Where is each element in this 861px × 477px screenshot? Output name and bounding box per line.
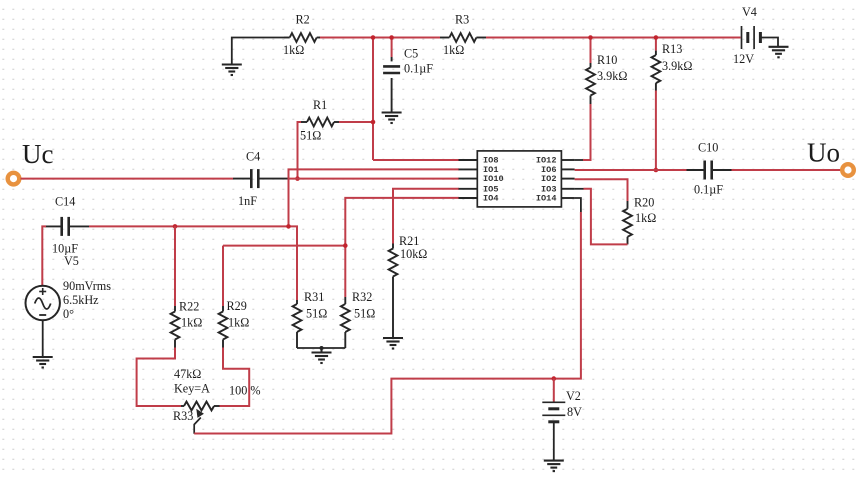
svg-text:0.1µF: 0.1µF bbox=[404, 62, 433, 76]
svg-text:R13: R13 bbox=[662, 42, 682, 56]
ground (V4) bbox=[769, 47, 789, 58]
svg-text:1kΩ: 1kΩ bbox=[228, 316, 249, 330]
battery V2 bbox=[542, 402, 565, 422]
svg-text:R1: R1 bbox=[313, 98, 327, 112]
svg-text:R29: R29 bbox=[227, 299, 247, 313]
junction IO4 drop / R29 branch bbox=[343, 243, 348, 248]
node Uo terminal bbox=[842, 164, 854, 176]
svg-text:1kΩ: 1kΩ bbox=[181, 316, 202, 330]
svg-text:47kΩ: 47kΩ bbox=[174, 367, 201, 381]
ground (V2) bbox=[544, 461, 564, 472]
resistor R2 bbox=[284, 33, 320, 42]
svg-text:R32: R32 bbox=[352, 290, 372, 304]
svg-text:R22: R22 bbox=[179, 300, 199, 314]
wire pin IO4 branch to R29 top bbox=[222, 246, 224, 306]
svg-text:51Ω: 51Ω bbox=[354, 307, 375, 321]
resistor R20 bbox=[623, 201, 632, 244]
wire pin IO14 corner bbox=[575, 198, 581, 212]
wire R2 ground lead bbox=[232, 38, 284, 65]
svg-text:C10: C10 bbox=[698, 141, 718, 155]
wire C14 left to V5 bbox=[42, 226, 46, 286]
svg-text:IO4: IO4 bbox=[483, 194, 498, 204]
resistor R3 bbox=[440, 33, 486, 42]
resistor R13 bbox=[652, 51, 661, 91]
junction top rail / x373 bbox=[371, 35, 376, 40]
svg-text:R21: R21 bbox=[399, 234, 419, 248]
wire R10 top bbox=[590, 38, 592, 64]
capacitor C4 bbox=[233, 169, 289, 188]
svg-text:51Ω: 51Ω bbox=[306, 307, 327, 321]
svg-text:100 %: 100 % bbox=[229, 384, 260, 398]
wire V2 negative to ground bbox=[553, 422, 555, 461]
junction C14 line / R22 bbox=[173, 224, 178, 229]
wire pin IO1 line and drop to C14 line bbox=[289, 169, 460, 226]
pin labels right column bbox=[536, 156, 557, 204]
resistor R21 bbox=[389, 244, 398, 339]
wire R10 bottom to pin IO12 bbox=[583, 104, 591, 160]
pin stubs right (IO12 IO6 IO2 IO3 IO14) bbox=[561, 160, 574, 198]
svg-text:R20: R20 bbox=[634, 196, 654, 210]
svg-text:51Ω: 51Ω bbox=[300, 129, 321, 143]
wire R33 wiper to V2 and pin IO14 bbox=[194, 212, 581, 434]
node Uc terminal bbox=[8, 173, 20, 185]
wire V2 positive lead bbox=[553, 379, 555, 403]
wire pin IO4 line and drop to R32 bbox=[345, 198, 459, 297]
svg-text:V5: V5 bbox=[64, 254, 79, 268]
ground (R2 left) bbox=[222, 65, 242, 76]
svg-text:R3: R3 bbox=[455, 13, 469, 27]
wire top rail left segment (R2 to R3) bbox=[319, 37, 440, 39]
wire pin IO3 to R20 bottom bbox=[575, 188, 584, 190]
wire Uc to C4 bbox=[21, 178, 234, 180]
wire R22 top bbox=[174, 226, 176, 306]
svg-text:C5: C5 bbox=[404, 47, 418, 61]
capacitor C10 bbox=[687, 161, 732, 180]
capacitor C14 bbox=[45, 217, 90, 236]
svg-text:R10: R10 bbox=[597, 53, 617, 67]
junction V2 positive bbox=[552, 376, 557, 381]
wire V4 negative to ground bbox=[760, 38, 778, 47]
potentiometer R33 bbox=[181, 402, 220, 434]
svg-text:V4: V4 bbox=[742, 5, 757, 19]
resistor R1 bbox=[301, 118, 339, 127]
wire V5 to ground bbox=[42, 320, 44, 357]
ground (R31/R32) bbox=[312, 348, 332, 363]
wire R22 bottom to R33 left bbox=[137, 348, 181, 407]
wire R29 branch line bbox=[223, 245, 345, 247]
wire C4 to IC pin IO10 bbox=[289, 178, 459, 180]
wire C5 top bbox=[391, 38, 393, 58]
wire C10 to Uo terminal bbox=[732, 169, 842, 171]
resistor R29 bbox=[219, 306, 228, 348]
svg-text:8V: 8V bbox=[567, 405, 582, 419]
wire pin IO2 to R20 top bbox=[575, 179, 628, 201]
wire R13 top bbox=[655, 38, 657, 51]
capacitor C5 bbox=[383, 57, 400, 113]
resistor R22 bbox=[171, 306, 180, 348]
junction R31/R32 ground rail bbox=[320, 346, 324, 350]
resistor R31 bbox=[293, 300, 302, 348]
wire R1 right end to x373 bbox=[339, 121, 373, 123]
wire R31/R32 bottom rail bbox=[297, 347, 345, 349]
junction R1/Uc line bbox=[295, 176, 300, 181]
svg-text:1kΩ: 1kΩ bbox=[635, 211, 656, 225]
junction R1 right at x373 bbox=[371, 120, 376, 125]
wire R1 left down to Uc line bbox=[298, 122, 302, 179]
svg-text:0.1µF: 0.1µF bbox=[694, 183, 723, 197]
svg-text:90mVrms: 90mVrms bbox=[63, 279, 111, 293]
svg-text:R31: R31 bbox=[304, 290, 324, 304]
svg-text:1kΩ: 1kΩ bbox=[443, 43, 464, 57]
battery V4 bbox=[742, 26, 761, 49]
ground (V5) bbox=[33, 357, 53, 368]
svg-text:IO10: IO10 bbox=[483, 174, 504, 184]
svg-text:Uo: Uo bbox=[807, 138, 840, 168]
svg-text:R33: R33 bbox=[173, 409, 193, 423]
junction R13/output line bbox=[654, 168, 659, 173]
svg-text:C4: C4 bbox=[246, 150, 260, 164]
pin labels left column bbox=[483, 156, 504, 204]
svg-text:IO14: IO14 bbox=[536, 194, 557, 204]
svg-text:C14: C14 bbox=[55, 195, 75, 209]
junction C14 line / IO1 drop bbox=[286, 224, 291, 229]
ground (C5) bbox=[382, 113, 402, 124]
ac source V5 bbox=[26, 286, 60, 320]
ground (R21) bbox=[383, 338, 403, 349]
svg-text:0°: 0° bbox=[63, 307, 74, 321]
svg-text:R2: R2 bbox=[296, 13, 310, 27]
resistor R10 bbox=[586, 63, 595, 104]
resistor R32 bbox=[341, 297, 350, 348]
pin stubs left (IO8 IO1 IO10 IO5 IO4) bbox=[459, 160, 478, 198]
wire C14 right to R31 drop bbox=[89, 226, 297, 300]
junction top rail / C5 bbox=[389, 35, 394, 40]
wire from top rail down to IO8 line (x=373) bbox=[372, 38, 374, 161]
svg-text:1nF: 1nF bbox=[238, 194, 257, 208]
svg-text:V2: V2 bbox=[566, 389, 581, 403]
junction top rail / R13 bbox=[654, 35, 659, 40]
svg-text:10kΩ: 10kΩ bbox=[400, 247, 427, 261]
wire R29 bottom to R33 right bbox=[219, 348, 249, 407]
wire top rail right segment (R3 to V4) bbox=[486, 37, 741, 39]
svg-text:12V: 12V bbox=[733, 52, 754, 66]
svg-text:Uc: Uc bbox=[22, 139, 53, 169]
op-amp IC U1 (IO block) bbox=[477, 151, 561, 207]
svg-text:IO2: IO2 bbox=[541, 174, 556, 184]
wire pin IO12 stub extension bbox=[575, 159, 583, 161]
wire R13 bottom to output line bbox=[655, 91, 657, 171]
svg-text:1kΩ: 1kΩ bbox=[283, 43, 304, 57]
wire pin IO8 line bbox=[373, 159, 459, 161]
svg-text:Key=A: Key=A bbox=[174, 382, 210, 396]
wire pin IO6 output line to C10 bbox=[575, 169, 687, 171]
svg-text:6.5kHz: 6.5kHz bbox=[63, 293, 99, 307]
svg-text:3.9kΩ: 3.9kΩ bbox=[662, 59, 692, 73]
wire pin IO5 line and drop to R21 bbox=[393, 189, 459, 244]
junction top rail / R10 bbox=[588, 35, 593, 40]
svg-text:3.9kΩ: 3.9kΩ bbox=[597, 69, 627, 83]
